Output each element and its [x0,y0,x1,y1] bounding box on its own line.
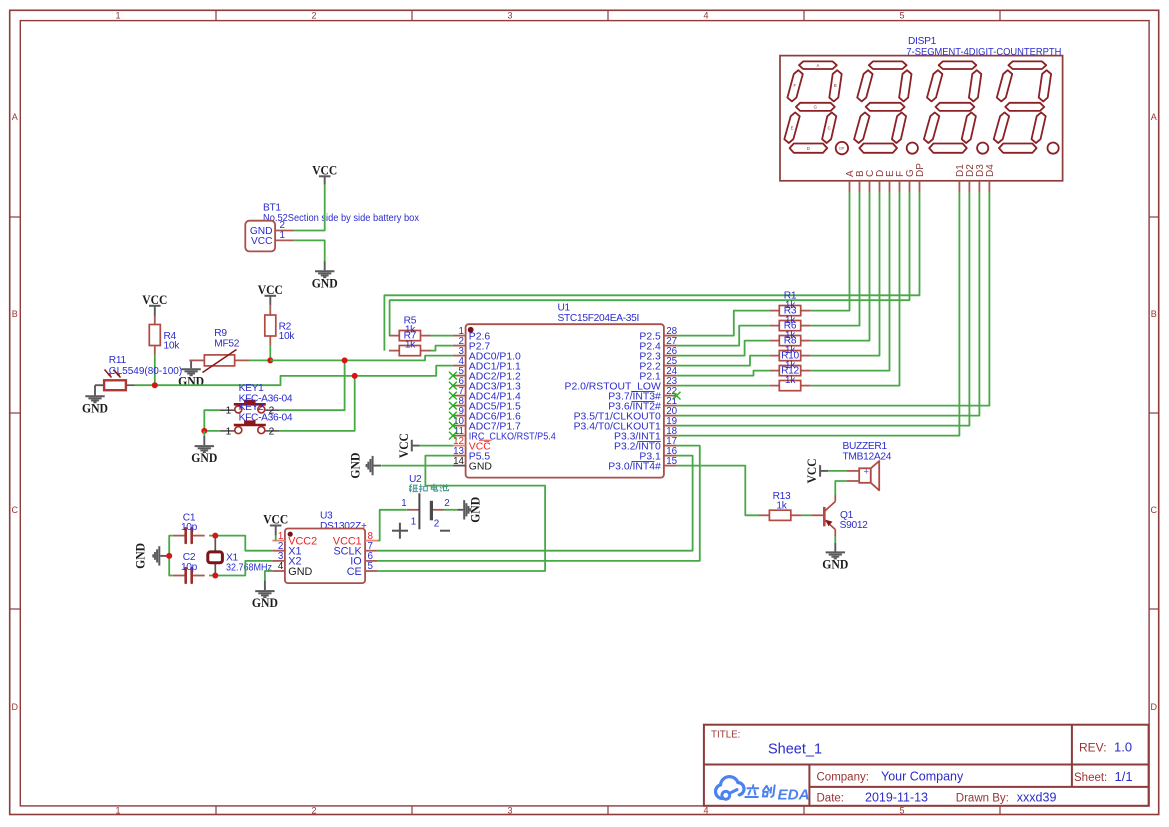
svg-text:1k: 1k [405,340,416,351]
resistor R4 10k [149,316,180,355]
svg-text:STC15F204EA-35I: STC15F204EA-35I [558,313,640,324]
wire D1-D4 to U1 P3.x [677,193,990,436]
capacitor C1 10p [173,512,205,543]
node KEY2 junction [352,373,358,379]
wire VCC to pin12 [420,445,453,447]
ground at U1 pin14 [349,453,382,479]
wire segment bus A-F to resistors [811,193,900,386]
svg-text:14: 14 [453,456,464,467]
svg-text:Sheet:: Sheet: [1074,772,1107,784]
svg-text:3: 3 [507,805,512,815]
buzzer BUZZER1 TMB12A24 [843,441,892,490]
wire P3.0 pin15 to R13 [677,466,760,516]
wire R2 to node [269,345,271,360]
wire battery pin1 to U3 VCC1 [378,510,407,541]
svg-text:A: A [12,112,18,122]
svg-text:G: G [814,104,817,109]
svg-text:E: E [791,126,794,131]
U3 pins [272,531,377,578]
svg-text:BUZZER1: BUZZER1 [843,441,888,452]
battery box BT1 [245,202,419,251]
battery U2 button cell [392,474,450,539]
svg-text:1: 1 [115,10,120,20]
svg-text:A: A [817,63,820,68]
wire main divider node row [135,356,453,386]
no-connect X marks pins 5-11 [449,372,457,440]
svg-text:GND: GND [469,497,483,523]
power VCC above R4 [142,293,167,316]
svg-text:VCC: VCC [805,458,819,483]
svg-text:VCC: VCC [312,163,337,177]
svg-text:1: 1 [226,426,232,437]
wire KEY2 pin2 up to key row [280,376,355,431]
svg-text:2: 2 [311,10,316,20]
EasyEDA logo [716,777,810,804]
wire P5.5 pin13 to U3 CE [378,456,545,571]
svg-text:GND: GND [822,558,848,572]
svg-text:B: B [12,309,18,319]
photoresistor R11 GL5549(80-100) [104,355,182,390]
svg-text:1k: 1k [785,375,796,386]
svg-text:5: 5 [368,561,374,572]
wire Q1 collector to gnd [834,536,836,543]
ground below BT1 [312,261,338,290]
resistor R2 10k [265,306,296,345]
power VCC above R2 [258,283,283,306]
wire G to R5 [390,193,910,336]
svg-text:1: 1 [226,406,232,417]
wire R13 to Q1 base [801,514,812,516]
svg-text:GND: GND [312,276,338,290]
wire keys pin1 to GND [204,410,220,431]
svg-text:D: D [807,146,810,151]
ground left of R9 [178,360,204,388]
ground below U3 pin4 [252,571,278,610]
svg-text:GND: GND [469,461,492,472]
svg-text:D: D [1151,702,1158,712]
svg-text:MF52: MF52 [214,338,239,349]
svg-text:10p: 10p [181,562,198,573]
power VCC at buzzer [805,458,828,483]
resistor R3 1k [769,306,810,331]
svg-text:GL5549(80-100): GL5549(80-100) [109,366,182,377]
wire vcc to buzzer pin1 [828,470,847,472]
wire P3.2 pin17 to U3 IO [378,446,700,561]
svg-text:Drawn By:: Drawn By: [956,793,1009,805]
svg-text:GND: GND [349,453,363,479]
svg-text:4: 4 [278,561,284,572]
wire R4 to node row [154,355,156,386]
svg-text:10p: 10p [181,522,198,533]
svg-text:C: C [1151,505,1158,515]
resistor R7 1k [389,330,431,355]
svg-text:CE: CE [347,566,362,578]
switch KEY2 KFC-A36-04 [220,402,293,437]
ground below Q1 [822,543,848,572]
resistor R10 1k [769,351,810,376]
svg-text:KEY2: KEY2 [239,402,264,413]
svg-text:Company:: Company: [817,772,869,784]
svg-text:U3: U3 [320,511,333,522]
svg-text:P3.0/INT4#: P3.0/INT4# [608,461,661,472]
svg-text:2: 2 [434,519,439,530]
wire C1-C2 left side [169,536,173,576]
svg-text:R9: R9 [214,328,227,339]
svg-text:5: 5 [899,10,904,20]
wire P3.1 pin16 to U3 SCLK [378,456,693,551]
op-amp U1 STC15F204EA-35I [466,303,664,478]
svg-text:Sheet_1: Sheet_1 [768,742,822,758]
svg-text:GND: GND [252,596,278,610]
svg-text:TMB12A24: TMB12A24 [843,452,892,463]
svg-text:Your Company: Your Company [881,770,964,784]
svg-text:C: C [12,505,19,515]
capacitor C2 10p [173,552,205,583]
svg-text:2: 2 [311,805,316,815]
crystal X1 32.768MHz [208,536,272,576]
svg-text:EDA: EDA [778,787,810,804]
svg-text:D: D [12,702,19,712]
svg-text:GND: GND [288,566,312,578]
wire DP to R7 [384,193,919,351]
node KEY1 junction [342,357,348,363]
svg-text:VCC: VCC [263,513,288,527]
svg-text:2: 2 [269,426,275,437]
wire vcc to U3 pin1 [275,535,277,541]
7-segment display DISP1 [780,36,1063,181]
node R2/R9 junction [267,357,273,363]
svg-text:DP: DP [839,147,845,151]
DISP1 pins A-G DP D1-D4 [845,163,996,193]
svg-text:VCC: VCC [258,283,283,297]
no-connect X mark pin 22 [673,392,681,400]
ground right of battery [457,497,482,523]
wire battery pin2 to GND [444,509,457,511]
svg-text:REV:: REV: [1079,741,1107,755]
resistor R13 1k [759,491,801,520]
svg-text:2019-11-13: 2019-11-13 [865,791,928,805]
svg-text:GND: GND [82,401,108,415]
svg-text:3: 3 [507,10,512,20]
power VCC above U3 pin1 [263,513,288,536]
resistor R12 1k [769,366,810,391]
thermistor R9 MF52 [189,328,249,373]
svg-text:DISP1: DISP1 [908,36,937,47]
svg-text:10k: 10k [164,341,181,352]
svg-text:No.52Section side by side batt: No.52Section side by side battery box [263,213,419,224]
resistor R1 1k [769,291,810,316]
svg-text:10k: 10k [279,331,296,342]
svg-text:1: 1 [401,498,406,509]
svg-text:U1: U1 [558,303,571,314]
svg-text:C: C [828,126,831,131]
svg-text:1: 1 [411,517,416,528]
svg-text:VCC: VCC [397,433,411,458]
node C1/X1 [212,533,218,539]
wire BT1 pin1 to GND [294,240,324,261]
wire R9 to R2 node [250,359,271,361]
svg-text:B: B [834,83,837,88]
svg-text:1/1: 1/1 [1115,769,1133,784]
U1 pins [453,326,678,473]
svg-text:15: 15 [666,456,677,467]
switch KEY1 KFC-A36-04 [220,383,293,417]
wire BT1 pin2 to VCC [294,184,324,231]
wire gnd to pin14 [382,465,453,467]
resistor R6 1k [769,321,810,346]
wire C1/X1 to U3 X1 pin [209,536,272,551]
svg-text:VCC: VCC [251,236,273,247]
svg-text:BT1: BT1 [263,202,281,213]
wire KEY1 pin2 up to divider row [280,360,345,410]
svg-text:1k: 1k [776,501,787,512]
svg-text:VCC: VCC [142,293,167,307]
title block [704,725,1149,806]
wire C2/X1 to U3 X2 pin [209,561,272,576]
resistor R5 1k [389,315,431,340]
svg-text:A: A [1151,112,1157,122]
IC U3 DS1302Z+ [285,511,367,584]
node keys gnd junction [201,428,207,434]
ground left of caps [134,543,170,569]
svg-text:DP: DP [915,163,926,177]
svg-text:1: 1 [115,805,120,815]
svg-text:KFC-A36-04: KFC-A36-04 [239,413,293,424]
resistor R8 1k [769,336,810,361]
wire R7 to pin2 [431,346,453,351]
svg-text:S9012: S9012 [840,520,869,531]
svg-text:TITLE:: TITLE: [711,730,740,741]
ground left of R11 [82,385,108,415]
svg-text:1: 1 [280,230,285,241]
svg-text:xxxd39: xxxd39 [1017,791,1057,805]
svg-text:KEY1: KEY1 [239,383,264,394]
power VCC at U1 pin12 [397,433,420,458]
svg-text:U2: U2 [409,474,422,485]
wire buzzer pin2 to Q1 emitter [835,481,846,495]
ground below keys [191,431,217,465]
transistor Q1 S9012 [812,495,868,536]
wires U1 right pins 28-23 to resistor stack [677,311,770,386]
wire R5 to pin1 [431,335,453,337]
node caps gnd [166,553,172,559]
svg-text:4: 4 [703,10,708,20]
svg-text:R11: R11 [109,355,127,366]
node C2/X1 [212,573,218,579]
power VCC above BT1 [312,163,337,184]
svg-text:+: + [864,467,869,477]
svg-text:F: F [794,83,797,88]
svg-text:2: 2 [444,498,449,509]
svg-text:GND: GND [134,543,148,569]
svg-text:B: B [1151,309,1157,319]
svg-text:GND: GND [191,451,217,465]
svg-text:D4: D4 [985,164,996,177]
node R4 junction [152,382,158,388]
svg-text:1.0: 1.0 [1114,740,1132,755]
svg-text:Date:: Date: [817,793,845,805]
